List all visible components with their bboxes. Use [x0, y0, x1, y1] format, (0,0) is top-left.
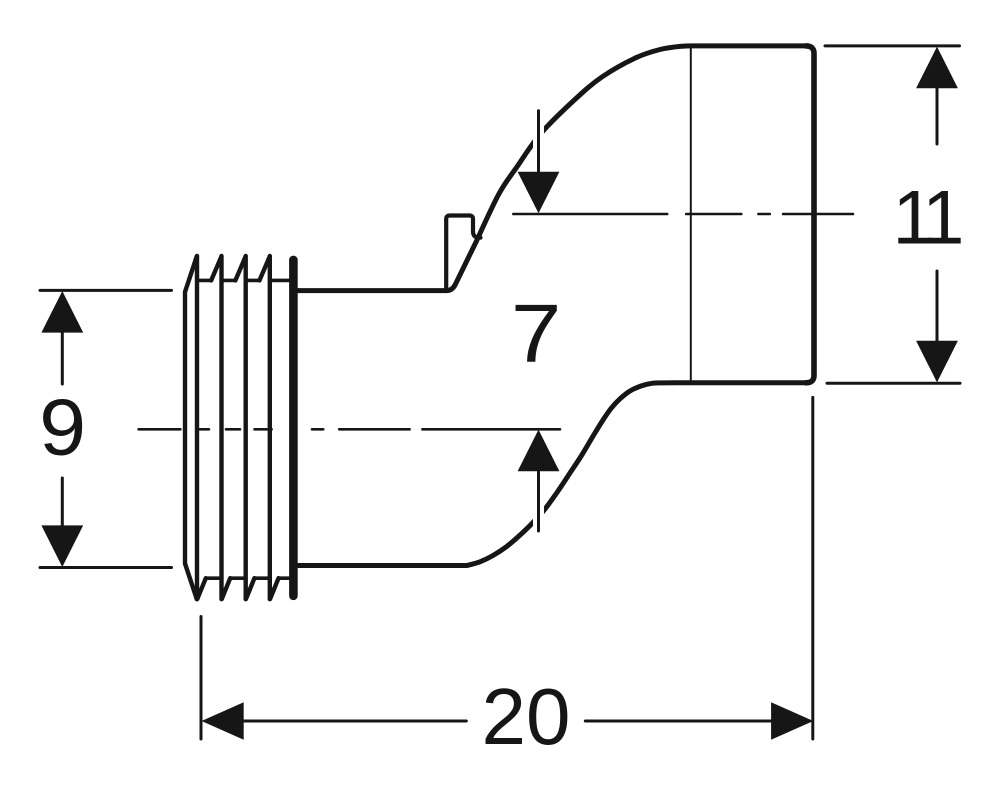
- dim 7: upper leader line: [537, 111, 540, 173]
- dim 20: left extension line: [200, 617, 203, 740]
- dim 11: arrow down: [916, 341, 958, 383]
- seal fin 2 (slant + vertical): [211, 256, 221, 599]
- dim 20: arrow left: [202, 702, 244, 740]
- svg-text:9: 9: [39, 383, 86, 472]
- dim 9: shaft lower: [61, 478, 64, 527]
- svg-text:11: 11: [893, 175, 962, 260]
- seal flange (thick bar): [289, 260, 298, 596]
- dim 7: arrow down to upper centerline: [518, 172, 560, 214]
- lower pipe centerline (dash-dot): [139, 428, 560, 431]
- dim 11: shaft upper: [936, 87, 939, 144]
- seal top valley line segments: [199, 279, 289, 283]
- seal fin 3 (slant + vertical): [235, 256, 245, 599]
- svg-text:20: 20: [482, 672, 571, 761]
- clip tab on pipe top: [446, 216, 480, 290]
- dim 11: shaft lower: [936, 271, 939, 341]
- dim 7: arrow up to lower centerline: [518, 430, 560, 472]
- dim 11: arrow up: [916, 47, 958, 89]
- svg-text:7: 7: [511, 287, 562, 380]
- dim 9: arrow up: [41, 291, 83, 333]
- seal bottom valley line segments: [206, 576, 289, 580]
- seal fin 4 (slant + vertical): [260, 256, 270, 599]
- cylinder right edge with rounded corners: [806, 46, 814, 383]
- dim 11: bottom extension line: [827, 382, 960, 385]
- dim 11: top extension line: [825, 44, 960, 47]
- dim 20: right extension line: [811, 397, 814, 739]
- dim 7: lower leader halo: [533, 472, 544, 531]
- seal left face with chamfers: [185, 256, 197, 599]
- dim 9: shaft upper: [61, 331, 64, 384]
- pipe top line + upper S-curve + cylinder top line: [298, 46, 806, 291]
- seal bottom slants: [197, 578, 278, 599]
- upper cylinder centerline (dash-dot): [513, 213, 853, 216]
- dim 20: shaft right: [585, 720, 773, 723]
- dim 9: bottom extension line: [40, 566, 172, 569]
- seal fin 1 vertical: [195, 256, 199, 599]
- pipe bottom line + lower S-curve + cylinder bottom line: [298, 383, 806, 566]
- dim 20: shaft left: [242, 720, 466, 723]
- dim 7: upper leader halo: [533, 111, 544, 170]
- dim 7: lower leader line: [537, 470, 540, 531]
- dim 20: arrow right: [771, 702, 813, 740]
- cylinder tangent line (thin): [690, 48, 692, 382]
- dim 9: top extension line: [40, 289, 172, 292]
- dim 9: arrow down: [41, 525, 83, 567]
